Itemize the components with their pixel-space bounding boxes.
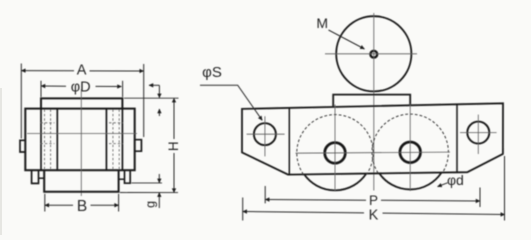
svg-text:φd: φd [447,172,464,188]
roller left visible bottom arc [304,174,366,190]
roller left vertical centerline [334,105,336,192]
svg-text:M: M [316,15,328,31]
small thickness dimension lower arrow [158,109,160,116]
top roller centre hole [370,51,377,58]
hidden hole tick lower right [109,143,123,145]
right hole vertical centerline [477,115,479,154]
wheel rim side line right (inside body) [121,109,123,171]
right guide pin [125,170,131,183]
left hole vertical centerline [264,116,266,156]
svg-text:K: K [369,208,379,224]
hidden line (dashed) left b [50,110,52,170]
g lower / H bottom extension line (plate bottom) [120,192,178,194]
dimension B line [45,204,73,206]
inner vertical line left [56,109,58,171]
dimension B extension line left [44,194,46,212]
hidden hole tick lower left [41,143,55,145]
bottom plate [44,170,118,192]
roller right hidden circle (dashed) [372,114,448,173]
dimension A line [21,70,74,72]
phiS hole right [467,122,489,144]
svg-text:φD: φD [71,80,91,96]
dimension K extension line left [242,198,244,221]
dimension P extension line right [479,188,481,208]
inner vertical line right plate [456,104,458,172]
inner vertical line left plate [288,108,290,175]
right step [119,178,125,180]
dimension K extension line right [504,156,506,221]
dimension A extension line right [143,64,145,137]
small thickness dimension leader (top right) [149,84,159,86]
leader M [329,30,365,49]
leader phiS [200,85,262,120]
left guide pin [32,170,39,183]
main body outline [25,109,134,171]
dimension phiD line [41,85,66,87]
svg-text:B: B [77,198,87,215]
boss on top of body [333,95,410,107]
H top extension line (flange top) [124,97,179,99]
g upper extension line (pin bottom) [132,182,163,184]
svg-text:P: P [369,193,378,208]
top roller horizontal centerline [325,53,417,55]
rollers horizontal centerline [296,152,451,153]
roller left hidden circle (dashed) [297,115,373,175]
roller right shaft circle [400,142,421,163]
side tab right [135,140,142,152]
side tab left [20,140,25,152]
dimension P extension line left [264,186,266,203]
svg-text:g: g [144,201,158,208]
body outline [242,103,503,174]
phiS hole left [254,123,276,145]
vertical centerline of left view [80,89,82,196]
roller right vertical centerline [409,104,411,191]
hidden line (dashed) right b [118,110,120,170]
dimension H line [173,98,175,139]
inner vertical line right [105,109,107,171]
dimension K line [243,212,364,213]
left hole horizontal centerline [247,133,285,135]
right hole horizontal centerline [460,132,497,134]
svg-text:φS: φS [202,64,222,81]
leader phid [438,183,448,187]
dimension phiD extension line right [122,81,124,97]
hidden line (dashed) right a [112,110,114,170]
svg-text:A: A [77,63,87,79]
wheel rim side line left (inside body) [40,109,42,171]
left step [39,177,45,179]
hidden hole tick upper left [41,122,55,124]
main vertical centerline [373,13,375,191]
top flange (wheel rim seen from front) [41,98,122,108]
hidden hole tick upper right [109,122,123,124]
dimension P line [265,199,366,202]
horizontal centerline of body [27,133,137,135]
dimension g line with outside arrows [158,174,160,183]
roller right visible bottom arc [379,173,441,189]
top guide roller circle [336,16,411,91]
svg-text:H: H [166,141,181,151]
faint scan streak left edge [0,88,2,235]
roller left shaft circle [325,143,346,164]
dimension A extension line left [20,64,22,139]
dimension phiD extension line left [40,81,42,97]
hidden line (dashed) left a [44,110,46,170]
dimension B extension line right [118,194,120,212]
